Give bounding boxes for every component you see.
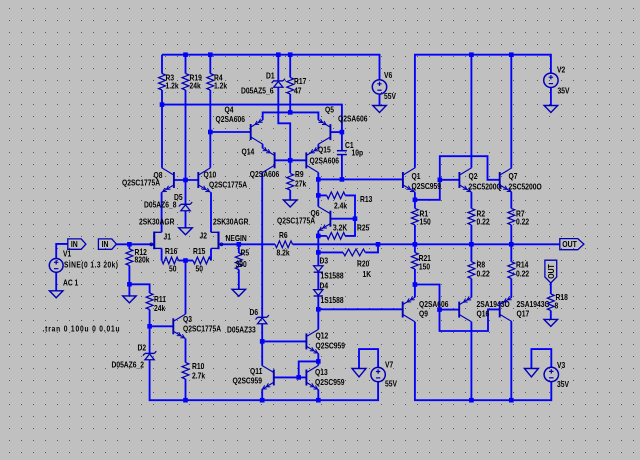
svg-text:Q16: Q16: [477, 309, 490, 319]
svg-text:35V: 35V: [557, 379, 569, 389]
wire Q1 collector to +35V rail to V2: [415, 55, 551, 168]
wire R16-R15 center: [179, 260, 194, 262]
svg-text:D6: D6: [250, 307, 259, 317]
svg-text:Q2SA606: Q2SA606: [419, 299, 448, 309]
wire lower bias node to Q9 base: [318, 308, 402, 310]
transistor Q2: [459, 168, 502, 192]
svg-text:Q4: Q4: [225, 105, 235, 115]
wire R5 top lead: [238, 244, 240, 253]
resistor R13: [327, 192, 373, 211]
wire VAS output to Q1 base: [318, 173, 403, 180]
resistor R11: [146, 293, 166, 313]
transistor Q14: [242, 147, 280, 179]
wire Q8/Q10 base node to D5: [185, 180, 187, 204]
svg-text:Q11: Q11: [250, 366, 262, 376]
transistor Q15: [306, 145, 339, 173]
resistor R18: [547, 292, 567, 310]
wire R18 bottom to ground: [550, 311, 552, 320]
resistor R7: [508, 208, 529, 226]
wire J1 drain up to Q8 emitter: [161, 192, 163, 232]
spice directive .tran: [43, 324, 121, 334]
wire R3 top lead: [161, 55, 163, 74]
svg-text:2.7k: 2.7k: [192, 371, 206, 381]
wire D1 cathode down with jog to Q14/Q15 base node and R9: [278, 87, 290, 173]
ground for V7: [352, 369, 366, 377]
wire D2 anode to -55V rail over to V7: [150, 360, 379, 400]
wire R14 top lead: [510, 244, 512, 261]
transistor Q4: [216, 105, 263, 144]
svg-text:Q2: Q2: [469, 171, 478, 181]
wire Q3 base: [150, 325, 174, 327]
wire R9 bottom to ground: [289, 190, 291, 200]
wire OUT2 flag to R18: [550, 283, 552, 294]
svg-text:35V: 35V: [558, 86, 570, 96]
svg-text:R17: R17: [294, 76, 306, 86]
wire Q4-Q14 junction: [262, 144, 264, 148]
resistor R25: [327, 223, 370, 239]
wire R4 bottom to Q10 collector: [209, 90, 211, 168]
zener diode D5: [144, 192, 192, 210]
svg-text:R5: R5: [241, 248, 250, 258]
svg-text:1.2k: 1.2k: [166, 81, 180, 91]
resistor R8: [468, 260, 490, 279]
svg-text:D05AZ33: D05AZ33: [227, 325, 256, 335]
transistor Q9: [403, 296, 449, 321]
svg-text:D05AZ6_2: D05AZ6_2: [112, 360, 144, 370]
wire Q16 base: [440, 309, 460, 311]
svg-text:1S1588: 1S1588: [321, 295, 344, 305]
wire R17 top lead: [289, 55, 291, 78]
svg-text:IN: IN: [102, 240, 109, 250]
wire V2 minus to ground: [550, 88, 552, 106]
wire VAS output down to Q6 collector: [317, 179, 319, 206]
wire Q11 emitter to negative rail: [261, 390, 263, 401]
voltage source V2: [544, 65, 570, 96]
svg-text:AC 1: AC 1: [63, 278, 78, 288]
wire Q16 collector to negative rail: [470, 322, 472, 400]
svg-text:Q2SC959: Q2SC959: [315, 377, 344, 387]
wire D6 anode to Q12 base node: [261, 324, 263, 342]
wire D1 top lead: [277, 55, 279, 81]
svg-text:0.22: 0.22: [516, 217, 529, 227]
transistor Q16: [459, 296, 510, 321]
wire R13 right lead to Q6 base node: [345, 195, 355, 218]
wire C1 bottom lead: [341, 155, 343, 180]
wire bias rail (R3 bottom to Q5 base): [162, 105, 342, 133]
resistor R3: [159, 73, 180, 91]
wire Q12 emitter loop to Q13 base: [299, 361, 319, 377]
port flag IN (amp input): [98, 239, 116, 249]
wire Q8/Q10 base link: [174, 179, 198, 181]
resistor R10: [182, 361, 206, 380]
wire Q12 emitter down: [317, 354, 319, 362]
svg-text:D05AZ5_6: D05AZ5_6: [241, 86, 273, 96]
ground below D5: [179, 228, 193, 235]
ground below V2: [544, 106, 558, 113]
wire Q1 emitter node to R1: [414, 192, 416, 208]
svg-text:R16: R16: [165, 247, 177, 257]
wire R25 left lead: [318, 235, 326, 237]
svg-text:2SC5200O: 2SC5200O: [509, 182, 542, 192]
wire D3 to D4: [317, 272, 319, 289]
ground below R5: [232, 289, 246, 296]
svg-text:.tran 0 100u 0 0.01u: .tran 0 100u 0 0.01u: [43, 324, 121, 334]
wire R14 bottom to Q17 emitter: [510, 279, 512, 298]
wire input line (IN flag to J1 gate): [116, 243, 150, 245]
voltage source V7: [371, 360, 397, 389]
wire D5 cathode... D5 anode to ground: [185, 211, 187, 228]
svg-text:8.2k: 8.2k: [277, 248, 291, 258]
wire R12 node to ground: [128, 284, 130, 296]
capacitor C1: [337, 140, 364, 157]
resistor R19: [182, 73, 202, 91]
wire Q17 base loop: [440, 309, 500, 331]
svg-text:R20: R20: [357, 259, 369, 269]
transistor Q1: [403, 168, 441, 192]
wire V3 plus to ground: [531, 349, 551, 368]
resistor R21: [412, 253, 431, 272]
transistor Q10: [198, 168, 247, 192]
resistor R17: [287, 76, 307, 95]
svg-text:50: 50: [169, 264, 176, 274]
transistor Q11: [233, 365, 274, 389]
svg-text:Q15: Q15: [318, 145, 331, 155]
resistor R14: [508, 260, 529, 279]
voltage source V1: [49, 249, 118, 288]
svg-text:1.2k: 1.2k: [214, 81, 228, 91]
wire Q2 collector up: [470, 55, 472, 168]
wire R10 bottom to negative rail: [185, 379, 187, 400]
svg-text:Q2SC1775A: Q2SC1775A: [183, 324, 222, 334]
svg-text:2SA1943O: 2SA1943O: [517, 299, 550, 309]
wire cascode emitter rail (Q4/R17/Q5): [263, 112, 319, 120]
svg-text:Q5: Q5: [325, 105, 334, 115]
resistor R5: [235, 248, 249, 270]
ground below R9: [283, 200, 297, 207]
wire Q14/Q15 base link: [275, 159, 307, 161]
wire V6 minus to ground: [379, 94, 381, 105]
wire Q7 collector up: [510, 55, 512, 168]
wire Q14 collector down to D6: [261, 173, 263, 318]
wire Q7 emitter to R7: [510, 192, 512, 208]
svg-text:J2: J2: [200, 231, 207, 241]
svg-text:Q7: Q7: [509, 171, 518, 181]
ground below V1: [49, 291, 63, 298]
wire Q9 emitter to R21: [414, 269, 416, 297]
ground below R18: [544, 319, 558, 326]
svg-text:27k: 27k: [295, 179, 307, 189]
wire R8 top lead: [470, 244, 472, 261]
zener diode D2: [112, 343, 157, 370]
svg-text:Q2SA606: Q2SA606: [310, 156, 339, 166]
svg-text:R15: R15: [193, 247, 205, 257]
transistor Q6: [277, 207, 330, 231]
wire R19 top lead: [185, 55, 187, 74]
svg-text:Q14: Q14: [242, 147, 255, 157]
wire R19 bottom to Q8/Q10 bases: [185, 90, 187, 180]
wire R7 bottom to output line: [510, 225, 512, 244]
diode D4: [314, 281, 344, 305]
net flag OUT (to R18): [545, 260, 557, 283]
svg-text:D3: D3: [320, 256, 329, 266]
wire J2 source down to R15: [210, 248, 212, 260]
svg-text:D4: D4: [320, 281, 329, 291]
svg-text:820k: 820k: [135, 255, 151, 265]
wire J1 source down to R16: [161, 248, 163, 260]
wire R8 bottom to Q16 emitter: [470, 279, 472, 298]
wire R21 top lead: [414, 244, 416, 252]
svg-text:47: 47: [294, 86, 301, 96]
wire R20 right lead up to feedback line: [365, 244, 378, 252]
svg-text:V7: V7: [385, 360, 393, 370]
voltage source V6: [372, 70, 396, 101]
wire +55V top rail to V6: [162, 55, 380, 80]
wire D4 to lower bias node: [317, 296, 319, 309]
wire Q5-Q15 junction: [317, 144, 319, 148]
resistor R16: [162, 247, 179, 274]
wire R5 bottom to ground: [238, 270, 240, 290]
resistor R1: [412, 208, 431, 226]
wire R12 bottom lead: [128, 266, 130, 285]
voltage source V3: [544, 360, 569, 389]
svg-text:D2: D2: [138, 343, 147, 353]
svg-text:0.22: 0.22: [477, 217, 490, 227]
wire V7 plus to ground: [359, 349, 378, 368]
wire Q6 base: [330, 218, 355, 220]
wire Q4 base: [210, 131, 250, 133]
svg-text:Q3: Q3: [183, 314, 192, 324]
wire R12 top lead: [128, 244, 130, 249]
svg-text:2.4k: 2.4k: [334, 201, 348, 211]
svg-text:Q9: Q9: [419, 309, 428, 319]
svg-text:150: 150: [420, 217, 431, 227]
wire R11 bottom to Q3 base node: [149, 310, 151, 327]
transistor Q13: [306, 365, 344, 389]
port flag IN (source): [68, 239, 86, 249]
svg-text:1K: 1K: [363, 269, 372, 279]
zener diode D6: [227, 307, 269, 334]
wire Q2 emitter to R2: [470, 192, 472, 208]
resistor R6: [275, 230, 293, 257]
svg-text:OUT: OUT: [546, 264, 556, 279]
wire C1 top lead: [341, 132, 343, 151]
svg-text:10p: 10p: [352, 148, 364, 158]
wire feedback line (J2 gate to R6): [223, 243, 275, 245]
jfet J2: [200, 217, 250, 249]
resistor R12: [126, 247, 150, 265]
svg-text:Q2SA606: Q2SA606: [216, 114, 245, 124]
wire R2 bottom to output line: [470, 225, 472, 244]
svg-text:D1: D1: [266, 71, 275, 81]
diode D3: [314, 256, 344, 281]
transistor Q8: [122, 168, 174, 192]
svg-text:OUT: OUT: [562, 240, 577, 250]
svg-text:8: 8: [555, 301, 559, 311]
svg-text:D05AZ6_8: D05AZ6_8: [144, 200, 176, 210]
ground for V3: [524, 369, 538, 377]
svg-text:24k: 24k: [190, 81, 202, 91]
wire R4 top lead: [209, 55, 211, 74]
resistor R9: [287, 169, 307, 190]
svg-text:0.22: 0.22: [477, 269, 490, 279]
wire R20 left lead: [318, 251, 343, 253]
wire R25 right lead: [345, 219, 355, 236]
svg-text:55V: 55V: [385, 379, 397, 389]
wire Q12 base: [262, 340, 306, 342]
wire V1 minus to ground: [55, 272, 57, 291]
transistor Q17: [500, 296, 550, 321]
svg-text:Q2SA606: Q2SA606: [250, 169, 279, 179]
svg-text:Q2SC959: Q2SC959: [316, 341, 345, 351]
wire Q3 emitter to R10: [185, 339, 187, 363]
wire Q11/Q13 base link: [274, 376, 307, 378]
wire R17 bottom lead: [289, 94, 291, 112]
svg-text:2SC5200Q: 2SC5200Q: [469, 182, 502, 192]
transistor Q7: [500, 168, 542, 192]
svg-text:V3: V3: [557, 360, 565, 370]
port flag OUT: [560, 239, 584, 250]
wire Q11 collector up: [261, 341, 263, 365]
transistor Q5: [318, 105, 367, 144]
svg-text:V2: V2: [557, 65, 565, 75]
svg-text:390: 390: [236, 259, 247, 269]
svg-text:J1: J1: [164, 232, 171, 242]
svg-text:24k: 24k: [154, 303, 166, 313]
svg-text:V1: V1: [63, 249, 71, 259]
svg-text:150: 150: [419, 262, 430, 272]
wire Q13 emitter to negative rail: [317, 390, 319, 401]
transistor Q12: [306, 329, 345, 353]
svg-text:SINE(0 1.3 20k): SINE(0 1.3 20k): [64, 260, 118, 270]
svg-text:Q2SC959: Q2SC959: [233, 376, 262, 386]
wire J2 drain up to Q10 emitter: [210, 192, 212, 232]
svg-text:Q2SC1775A: Q2SC1775A: [209, 180, 248, 190]
svg-text:Q13: Q13: [315, 367, 328, 377]
wire output/feedback line (R6 to OUT flag): [293, 243, 561, 245]
svg-text:0.22: 0.22: [516, 269, 529, 279]
wire Q5 base to bias rail: [330, 131, 342, 133]
svg-text:R9: R9: [295, 169, 304, 179]
wire V1 plus to IN flag: [56, 244, 68, 259]
wire Q2 base: [440, 179, 460, 181]
svg-text:R25: R25: [357, 223, 369, 233]
wire Q9 collector to -35V rail over to V3: [415, 322, 551, 401]
svg-text:R6: R6: [279, 230, 288, 240]
wire Q3 base node to D2: [149, 326, 151, 353]
resistor R15: [193, 247, 211, 274]
wire R12 bottom node to R11: [129, 284, 149, 293]
svg-text:IN: IN: [71, 240, 78, 250]
svg-text:R10: R10: [192, 361, 204, 371]
svg-text:Q12: Q12: [316, 331, 329, 341]
wire Q13 collector stub: [317, 361, 319, 365]
resistor R2: [468, 208, 490, 226]
svg-text:1S1588: 1S1588: [321, 271, 344, 281]
svg-text:V6: V6: [384, 70, 392, 80]
svg-text:2SK30AGR: 2SK30AGR: [213, 217, 249, 227]
svg-text:Q2SC1775A: Q2SC1775A: [277, 216, 316, 226]
ground below V6: [373, 106, 387, 113]
svg-text:Q10: Q10: [204, 170, 217, 180]
svg-text:R13: R13: [360, 194, 372, 204]
wire Q8 collector to bias rail: [161, 105, 163, 168]
wire R1 bottom to output line: [414, 225, 416, 244]
resistor R4: [207, 73, 228, 91]
svg-text:Q1: Q1: [412, 171, 421, 181]
wire tail node to Q3 collector: [185, 261, 187, 315]
svg-text:Q17: Q17: [517, 309, 530, 319]
svg-text:Q2SA606: Q2SA606: [338, 114, 367, 124]
wire Q16 base branch: [415, 285, 440, 310]
svg-text:Q2SC959: Q2SC959: [412, 181, 441, 191]
svg-text:50: 50: [196, 264, 203, 274]
wire Q6 emitter down to D3: [317, 231, 319, 266]
wire Q17 collector to negative rail: [510, 322, 512, 401]
zener diode D1: [241, 71, 285, 96]
svg-text:2SK30AGR: 2SK30AGR: [139, 217, 175, 227]
resistor R20: [343, 249, 372, 279]
svg-text:Q2SC1775A: Q2SC1775A: [122, 178, 161, 188]
wire R13 left lead: [318, 194, 326, 196]
net label NEGIN: [226, 234, 247, 244]
wire R3 bottom to bias rail: [161, 90, 163, 105]
svg-text:NEGIN: NEGIN: [226, 234, 247, 244]
wire Q12 collector up to lower bias node: [317, 309, 319, 329]
svg-text:3.2K: 3.2K: [333, 223, 348, 233]
svg-text:55V: 55V: [384, 91, 396, 101]
ground below R12: [123, 296, 137, 303]
transistor Q3: [173, 314, 221, 338]
jfet J1: [139, 217, 175, 249]
wire Q1 emitter to Q2/Q7 bases: [415, 156, 500, 200]
